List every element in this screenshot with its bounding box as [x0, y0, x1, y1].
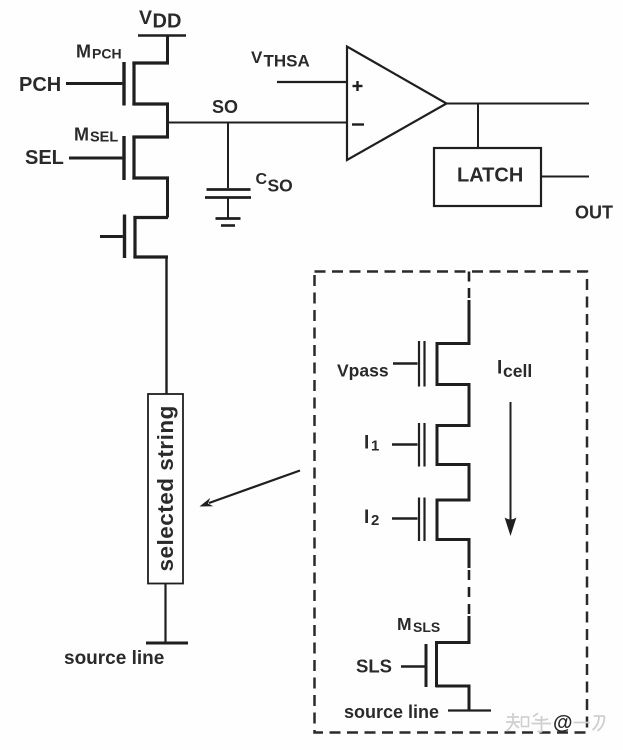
transistor I1 (cell): [392, 423, 471, 467]
wire M_SEL to T3: [166, 178, 169, 218]
transistor M_PCH: [66, 62, 169, 106]
svg-text:DD: DD: [153, 11, 182, 33]
svg-text:cell: cell: [503, 361, 532, 381]
transistor T3 (unlabeled): [100, 215, 168, 259]
op-amp plus sign: [353, 81, 363, 91]
node V_THSA label: [251, 48, 310, 71]
arrow I_cell current direction: [510, 402, 512, 524]
wire V_THSA lead: [277, 81, 348, 83]
svg-text:C: C: [256, 171, 268, 188]
wire I2 down solid: [468, 540, 471, 569]
svg-text:I: I: [497, 358, 502, 379]
svg-text:V: V: [251, 48, 263, 67]
svg-text:SO: SO: [212, 97, 238, 117]
wire source line (right): [448, 709, 491, 711]
svg-text:I: I: [364, 507, 369, 528]
svg-text:1: 1: [371, 438, 379, 455]
capacitor C_SO wire from SO: [227, 123, 229, 189]
svg-text:M: M: [74, 125, 89, 145]
block selected string box: [148, 394, 183, 584]
wire M_PCH source to SO node: [166, 104, 169, 138]
wire selected string to source line: [164, 584, 166, 644]
wire M_SLS to source line: [468, 686, 471, 711]
svg-text:OUT: OUT: [575, 203, 613, 223]
svg-text:SLS: SLS: [356, 656, 392, 677]
svg-text:Vpass: Vpass: [337, 361, 389, 381]
transistor M_SEL: [69, 136, 169, 181]
wire SO horizontal: [166, 122, 348, 124]
op-amp comparator U1: [347, 47, 447, 161]
svg-text:M: M: [76, 42, 91, 62]
svg-text:SEL: SEL: [90, 130, 118, 146]
arrow pointing to selected string: [209, 471, 300, 504]
wire to M_SLS: [468, 616, 471, 644]
op-amp minus sign: [352, 123, 364, 125]
transistor Vpass (cell): [393, 341, 471, 387]
svg-text:SLS: SLS: [413, 619, 440, 635]
wire bit line dashed top: [468, 272, 471, 302]
wire I1 to I2: [468, 465, 471, 502]
wire comparator output: [447, 103, 590, 105]
svg-text:THSA: THSA: [264, 52, 310, 71]
block LATCH box: [434, 148, 541, 206]
svg-text:I: I: [364, 433, 369, 454]
power VDD label: [139, 7, 181, 33]
svg-text:SEL: SEL: [25, 147, 64, 169]
capacitor C_SO label: [256, 171, 293, 196]
wire bit line solid to Vpass: [468, 300, 471, 345]
transistor M_SLS label: [397, 614, 440, 635]
svg-text:LATCH: LATCH: [457, 165, 523, 187]
svg-text:SO: SO: [268, 176, 293, 196]
transistor I2 label: [364, 507, 379, 529]
wire bit line dashed middle: [468, 570, 471, 616]
transistor M_PCH label: [76, 42, 122, 62]
wire T3 to selected string: [165, 257, 167, 394]
wire VDD stem: [166, 36, 169, 64]
svg-text:source line: source line: [344, 702, 439, 722]
svg-text:source line: source line: [64, 648, 164, 669]
watermark zhihu @yidao: [506, 713, 605, 732]
capacitor C_SO: [205, 190, 251, 219]
svg-text:PCH: PCH: [92, 46, 122, 62]
ground under C_SO: [216, 219, 241, 226]
transistor I2 (cell): [392, 498, 471, 542]
svg-text:selected string: selected string: [153, 405, 178, 571]
svg-text:@: @: [553, 712, 573, 734]
power VDD bar: [138, 34, 186, 37]
svg-text:PCH: PCH: [19, 74, 61, 96]
dashed NAND string box: [315, 272, 588, 733]
transistor I1 label: [364, 433, 379, 455]
svg-text:V: V: [139, 7, 152, 29]
node source line bar (left): [146, 642, 188, 645]
node I_cell label: [497, 358, 532, 382]
wire Vpass to I1: [468, 385, 471, 428]
svg-text:M: M: [397, 614, 412, 634]
transistor M_SEL label: [74, 125, 118, 146]
wire branch to latch: [477, 104, 479, 149]
svg-text:2: 2: [371, 512, 379, 529]
wire latch output: [541, 176, 589, 178]
transistor M_SLS: [401, 641, 471, 687]
